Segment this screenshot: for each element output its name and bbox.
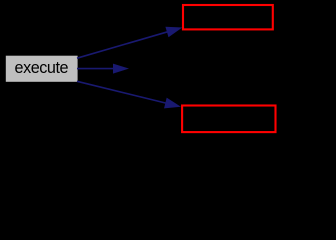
svg-text:execute: execute <box>15 59 69 77</box>
